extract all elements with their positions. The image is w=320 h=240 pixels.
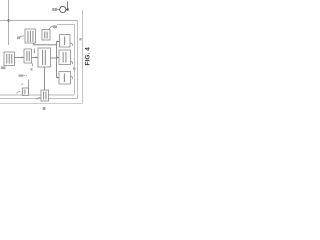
node dot — [66, 8, 68, 10]
label leader B1 — [20, 36, 25, 39]
box B1 — [25, 29, 36, 43]
bus vertical — [56, 42, 58, 78]
label mark outer frame — [79, 38, 81, 40]
label mark right frame — [73, 68, 76, 70]
wire B3 down — [44, 67, 46, 90]
frame outer right — [82, 10, 84, 104]
frame middle bottom — [0, 98, 78, 100]
box D2 — [23, 88, 29, 96]
frame outer bottom — [0, 103, 83, 105]
box D1 — [41, 90, 49, 101]
label leader R1 — [71, 43, 73, 46]
arrow into R2 — [57, 57, 59, 59]
motor label 440 — [52, 8, 54, 11]
frame middle top — [0, 20, 78, 22]
frame middle right — [77, 21, 79, 99]
node junction dot — [7, 19, 9, 21]
wire vertical top-left — [8, 0, 10, 45]
box B2t — [42, 30, 50, 41]
box R2 — [59, 50, 71, 65]
wire B2 to B3 arrow — [32, 57, 38, 59]
box R1 — [60, 35, 71, 48]
box L1 — [4, 52, 15, 66]
svg-text:FIG. 4: FIG. 4 — [84, 47, 91, 66]
label leader B2 bottom — [32, 63, 33, 66]
frame inner bottom — [0, 94, 75, 96]
small text below frame — [43, 107, 46, 110]
label leader D1 — [37, 97, 41, 99]
wire B1 bottom to bus — [34, 43, 57, 45]
label L1 — [1, 67, 6, 70]
label leader R2 — [71, 61, 73, 64]
label leader R3 — [71, 76, 73, 79]
wire circle to node — [66, 9, 68, 11]
label arrow down — [34, 49, 36, 53]
frame inner right — [74, 25, 76, 95]
label leader D2 — [17, 91, 21, 93]
motor circle M — [60, 6, 66, 12]
box B3 — [38, 48, 51, 67]
wire B3 right to bus — [51, 57, 57, 59]
frame inner top — [57, 24, 75, 26]
arrow into R1 — [57, 41, 60, 43]
arrow into R3 — [57, 77, 59, 79]
tick mark left low — [21, 84, 23, 85]
box B2 — [24, 49, 32, 63]
label text mid-left — [19, 75, 24, 77]
wire label to circle — [57, 9, 60, 11]
wire down left — [28, 80, 30, 96]
tick mark — [31, 68, 33, 71]
wire L1 to B2 arrow — [15, 57, 24, 59]
box R3 — [59, 72, 71, 85]
wire node up — [67, 2, 69, 10]
label leader B2t — [50, 26, 55, 29]
